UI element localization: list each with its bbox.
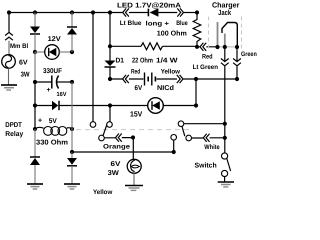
wire sleeve column — [236, 47, 238, 62]
wire x=35 down — [34, 52, 36, 82]
connector Orange chevrons left — [116, 134, 122, 142]
wire — [224, 124, 226, 138]
relay contact arm 2 — [182, 126, 185, 136]
svg-text:Mm Bl: Mm Bl — [10, 43, 28, 50]
node L (110 top) — [108, 10, 112, 14]
LED D2 1.7V 20mA (cathode left) — [147, 9, 149, 17]
wire 22 ohm row lead — [110, 45, 141, 47]
wire jack row — [197, 46, 218, 48]
LED row: connector Lt Blue chevrons left — [123, 8, 129, 16]
svg-text:1/4 W: 1/4 W — [156, 56, 178, 64]
svg-text:22 Ohm: 22 Ohm — [132, 56, 153, 64]
svg-text:Yellow: Yellow — [161, 68, 181, 75]
connector chevrons up (dynamo) — [5, 32, 13, 40]
node dynamo top — [7, 10, 11, 14]
svg-text:Lt Blue: Lt Blue — [120, 20, 142, 27]
resistor R2 22 Ohm 1/4W — [141, 43, 163, 50]
node B (35,52) — [33, 50, 37, 54]
node H (72,129) — [70, 127, 74, 131]
battery BT1 6V NiCd — [144, 73, 146, 86]
svg-text:100 Ohm: 100 Ohm — [157, 29, 187, 37]
svg-text:330 Ohm: 330 Ohm — [36, 138, 68, 146]
generator G1 6V 3W dynamo — [2, 55, 16, 69]
svg-text:LED 1.7V@20mA: LED 1.7V@20mA — [117, 2, 181, 9]
wire cap row left — [35, 81, 52, 83]
node O (196,79) — [194, 77, 198, 81]
ground (lamp) — [125, 185, 143, 187]
relay contact set 2: fixed (to white) — [186, 135, 192, 141]
switch SW1 terminal top — [222, 153, 228, 159]
wire x=93 long drop to relay contact — [92, 13, 94, 122]
svg-text:Red: Red — [202, 54, 213, 61]
wire — [110, 105, 148, 107]
wire contact to bus — [173, 140, 175, 152]
wire switch to ground — [224, 177, 226, 182]
relay contact set 1: fixed NC — [90, 122, 96, 128]
wire white row — [192, 137, 225, 139]
wire to ground — [34, 165, 36, 184]
wire common to jack column — [184, 123, 225, 125]
svg-text:12V: 12V — [48, 36, 61, 43]
node K (93 top) — [91, 10, 95, 14]
wire x=72 down through rows — [71, 82, 73, 152]
node U (197 top) — [195, 10, 199, 14]
wire — [34, 13, 36, 27]
ground (right diode) — [64, 183, 80, 185]
switch arm — [227, 159, 231, 172]
node D (35,82) — [33, 80, 37, 84]
relay dashed coupling line — [76, 129, 190, 131]
node Q (196,105.5) — [194, 103, 198, 107]
svg-text:6V: 6V — [135, 85, 143, 92]
diode D1 (cathode down) — [105, 61, 116, 67]
wire x=35 down to coil — [34, 106, 36, 130]
wire to generator — [8, 41, 10, 55]
svg-text:Red: Red — [131, 68, 140, 75]
wire — [109, 67, 111, 79]
connector Lt Green chevrons down — [221, 59, 229, 66]
svg-text:Relay: Relay — [5, 130, 23, 138]
relay coil RY1 330 Ohm — [35, 127, 44, 129]
wire long drop x=225 — [224, 66, 226, 124]
svg-text:Blue: Blue — [176, 20, 188, 27]
capacitor C1 330UF 16V — [51, 76, 53, 89]
wire — [157, 78, 197, 80]
wire 15V row mid — [59, 105, 110, 107]
svg-text:Yellow: Yellow — [93, 189, 113, 196]
node W (tip pin) — [215, 45, 219, 49]
svg-text:3W: 3W — [108, 170, 120, 177]
zener 12V in circle — [45, 45, 60, 60]
jack sleeve contact — [222, 23, 237, 47]
jack pin switch (gray) — [224, 34, 226, 47]
diode (rectifier left, cathode down) — [30, 27, 40, 34]
wire 15V row right — [163, 105, 196, 107]
svg-text:Green: Green — [241, 51, 257, 58]
wire x=35 down — [34, 129, 36, 157]
wire x=110 down — [109, 13, 111, 47]
jack internal gray link — [218, 46, 238, 48]
resistor R1 100 Ohm (vertical) — [193, 13, 201, 47]
relay contact set 2: fixed (to bus) — [171, 135, 177, 141]
node E (72,82) — [70, 80, 74, 84]
jack pin tip (gray) — [217, 22, 219, 47]
relay contact set 1: fixed NO — [107, 122, 113, 128]
node V (197,46) — [195, 45, 199, 49]
svg-text:6V: 6V — [111, 161, 121, 168]
relay contact set 2: common top — [178, 121, 184, 127]
relay contact set 1: common — [99, 135, 105, 141]
wire generator to ground — [8, 68, 10, 85]
wire — [71, 13, 73, 27]
wire 12V row left — [35, 51, 45, 53]
wire top bus — [9, 12, 123, 14]
node I (72 top) — [70, 10, 74, 14]
node R (110,105.5) — [108, 103, 112, 107]
relay contact arm 1 — [103, 125, 107, 136]
svg-text:6V: 6V — [19, 60, 28, 67]
ground (left diode) — [27, 183, 43, 185]
svg-text:long +: long + — [146, 20, 170, 27]
node T (173.7,152) — [172, 150, 176, 154]
wire — [71, 35, 73, 53]
ground (switch) — [218, 181, 234, 183]
node S (133,137.5) — [131, 135, 135, 139]
wire orange row — [104, 137, 133, 139]
wire lamp column — [132, 138, 134, 160]
node AA (225,137.8) — [223, 136, 227, 140]
connector White chevrons left — [203, 134, 209, 142]
wire jack bottom bus — [196, 78, 237, 80]
wire lamp to ground — [133, 173, 135, 185]
node Y (sleeve pin) — [235, 45, 239, 49]
svg-text:330UF: 330UF — [43, 68, 63, 75]
svg-text:+: + — [38, 118, 42, 125]
svg-text:3W: 3W — [21, 71, 30, 78]
svg-text:15V: 15V — [130, 109, 142, 118]
node X (switch pin) — [223, 45, 227, 49]
wire dynamo column — [8, 13, 10, 32]
wire 12V row right — [59, 51, 72, 53]
connector Red (jack) chevrons left — [200, 43, 206, 51]
connector Green chevrons down — [233, 59, 241, 66]
connector Blue chevrons right — [177, 8, 183, 16]
wire switch-pin column — [224, 47, 226, 62]
diode (right clamp, cathode down) — [67, 158, 77, 165]
wire cap row right — [57, 81, 72, 83]
ground (dynamo) — [1, 84, 17, 86]
wire battery row — [110, 78, 144, 80]
connector Red (battery) chevrons left — [123, 75, 129, 83]
node G (35,129) — [33, 127, 37, 131]
connector Yellow chevrons right — [177, 75, 183, 83]
wire to switch — [224, 138, 226, 153]
wire to ground — [71, 166, 73, 184]
svg-text:White: White — [204, 144, 220, 151]
wire — [34, 34, 36, 52]
svg-text:NICd: NICd — [157, 84, 174, 92]
switch SW1 terminal bottom — [222, 170, 228, 176]
svg-text:+: + — [47, 87, 51, 94]
diode (cathode up, x=72) — [67, 26, 77, 28]
svg-text:Lt Green: Lt Green — [193, 64, 218, 71]
svg-text:Jack: Jack — [218, 8, 232, 17]
node P (237,79) — [235, 77, 239, 81]
wire y=152 bus — [72, 151, 174, 153]
svg-text:D1: D1 — [116, 57, 125, 64]
node J (72,152) — [70, 150, 74, 154]
lamp LP1 6V 3W — [127, 159, 141, 173]
node M (110,46) — [108, 44, 112, 48]
wire 15V row left — [35, 105, 52, 107]
svg-text:5V: 5V — [49, 118, 57, 125]
wire — [236, 66, 238, 79]
svg-text:16V: 16V — [57, 91, 67, 98]
wire to jack node — [163, 45, 198, 47]
diode (left clamp, cathode up) — [30, 156, 40, 158]
charger jack J1 dashed boundary — [208, 17, 210, 51]
wire x=110 down to contact — [109, 106, 111, 122]
node A (x=35 top) — [33, 10, 37, 14]
node F (35,105.5) — [33, 103, 37, 107]
svg-text:Switch: Switch — [195, 161, 217, 169]
diode (relay feed, pointing right) — [52, 101, 58, 110]
node N (110,79) — [108, 77, 112, 81]
wire x=35 down to node F — [34, 82, 36, 106]
svg-text:Orange: Orange — [103, 144, 130, 151]
node Z (225,123.7) — [223, 122, 227, 126]
svg-text:DPDT: DPDT — [5, 122, 22, 129]
wire x=110 down to D1 — [109, 46, 111, 60]
zener 15V in circle — [148, 98, 164, 114]
wire down from node O — [195, 79, 197, 106]
node C (72,52) — [70, 50, 74, 54]
